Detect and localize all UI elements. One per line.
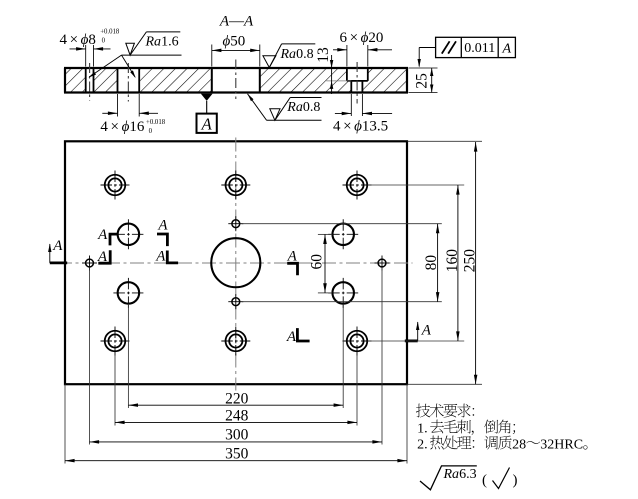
plan horizontal centerline: [58, 262, 413, 264]
svg-text:A: A: [201, 114, 213, 133]
hole phi16 at (343.2,292.9): [328, 278, 358, 308]
cutting plane end at right edge with arrow A: [405, 339, 418, 342]
dimension phi50: [211, 45, 213, 67]
svg-text:A: A: [421, 322, 432, 338]
extension lines for dimensions: [65, 141, 482, 463]
section hole phi16 walls: [118, 68, 140, 93]
svg-text:Ra1.6: Ra1.6: [145, 35, 179, 50]
svg-text:+0.018: +0.018: [100, 29, 120, 36]
cutting plane bend at (110,263): [98, 250, 110, 263]
svg-text:0.011: 0.011: [464, 41, 495, 56]
roughness Ra1.6 with leaders to phi8 and phi16 holes: [122, 54, 182, 56]
counterbore hole phi20/phi13.5 at (115,185): [101, 171, 130, 200]
hole phi8 at (235.8,223.7): [228, 216, 243, 231]
svg-text:+0.018: +0.018: [146, 119, 166, 126]
hole phi16 at (128.4,292.9): [113, 278, 143, 308]
plan view plate outline: [65, 141, 407, 384]
dimension 60: [324, 234, 326, 293]
hole phi16 at (343.2,234.3): [328, 219, 358, 249]
svg-text:13: 13: [315, 47, 332, 63]
counterbore hole phi20/phi13.5 at (115,341): [101, 327, 130, 356]
svg-text:4×ϕ16: 4×ϕ16: [100, 119, 144, 135]
dimension 25 plate thickness: [409, 67, 438, 69]
counterbore hole phi20/phi13.5 at (357,341): [343, 327, 372, 356]
counterbore hole phi20/phi13.5 at (357,185): [343, 171, 372, 200]
dimension 220: [128, 404, 343, 406]
svg-text:ϕ50: ϕ50: [223, 34, 246, 50]
dimension 250: [475, 142, 477, 384]
section counterbore phi20/phi13.5: [347, 68, 368, 93]
section centerlines: [90, 60, 358, 104]
svg-text:4×ϕ8: 4×ϕ8: [60, 32, 96, 48]
hole phi8 at (382.0,263.0): [375, 256, 390, 271]
svg-text:A: A: [286, 329, 297, 345]
counterbore hole phi20/phi13.5 at (235.8,185): [221, 171, 250, 200]
hole phi8 at (235.8,301.7): [228, 294, 243, 309]
dimension 350: [65, 460, 407, 462]
section hole phi50 walls: [212, 68, 260, 93]
cutting plane bend at (297.5,263): [287, 263, 297, 275]
overall roughness Ra6.3 symbol: [420, 466, 477, 490]
svg-text:Ra0.8: Ra0.8: [280, 47, 314, 62]
dimension 160: [457, 185, 459, 341]
svg-text:160: 160: [444, 249, 461, 273]
section plate outline: [64, 68, 408, 93]
svg-text:300: 300: [225, 427, 249, 444]
cutting plane bend at (297.4,341): [297, 328, 309, 341]
dimension 248: [115, 421, 357, 423]
dimension 300: [90, 441, 383, 443]
cutting plane bend at (110,234): [110, 234, 118, 245]
datum A symbol: [201, 94, 213, 101]
svg-text:60: 60: [308, 254, 325, 270]
center hole phi50: [211, 238, 260, 287]
cutting plane bend at (167.3,263): [167, 251, 178, 263]
dimension 4xphi13.5: [350, 94, 352, 116]
svg-text:80: 80: [423, 255, 440, 271]
svg-text:220: 220: [225, 390, 249, 407]
dimension 4xphi16 +0.018/0: [117, 94, 119, 117]
svg-text:2.: 2.: [417, 437, 428, 452]
svg-text:25: 25: [414, 73, 431, 89]
svg-text:1.: 1.: [417, 421, 428, 436]
svg-text:0: 0: [102, 37, 106, 44]
svg-text:Ra6.3: Ra6.3: [443, 467, 477, 482]
svg-text:248: 248: [225, 408, 249, 425]
svg-text:A: A: [97, 227, 108, 243]
hole phi8 at (89.5,263.0): [82, 256, 97, 271]
cutting plane start at left edge with arrow A: [50, 261, 67, 264]
svg-text:A: A: [97, 249, 108, 265]
svg-text:A: A: [157, 218, 168, 234]
svg-text:32HRC: 32HRC: [540, 437, 583, 452]
svg-text:): ): [513, 473, 518, 489]
svg-text:0: 0: [149, 128, 153, 135]
counterbore hole phi20/phi13.5 at (235.8,341): [221, 327, 250, 356]
roughness Ra0.8 on top surface: [263, 56, 276, 68]
svg-text:Ra0.8: Ra0.8: [286, 100, 320, 115]
svg-text:250: 250: [461, 249, 478, 273]
svg-text:A: A: [52, 238, 63, 254]
svg-text:A: A: [502, 41, 512, 56]
svg-text:A: A: [155, 248, 166, 264]
svg-text:A: A: [287, 249, 298, 265]
dimension 4xphi8 +0.018/0: [85, 45, 87, 67]
svg-text:350: 350: [225, 445, 249, 462]
hole phi16 at (128.4,234.3): [113, 219, 143, 249]
dimension 80: [437, 224, 439, 302]
svg-text:A—A: A—A: [219, 14, 254, 30]
svg-text:(: (: [482, 473, 487, 489]
plan vertical centerline: [235, 138, 237, 391]
dimension 6xphi20: [346, 45, 348, 67]
cutting plane bend at (167.4,234): [157, 234, 167, 246]
technical requirements text line 1: [416, 404, 474, 418]
section hole phi8 walls: [86, 68, 94, 93]
svg-text:6×ϕ20: 6×ϕ20: [340, 30, 384, 46]
svg-text:28: 28: [512, 437, 526, 452]
parallelism feature control frame 0.011 A: [418, 59, 421, 68]
section view A-A hatching: [65, 68, 407, 93]
dimension 13 counterbore depth: [326, 80, 351, 82]
roughness Ra0.8 with leader to phi50 bore: [248, 94, 254, 101]
